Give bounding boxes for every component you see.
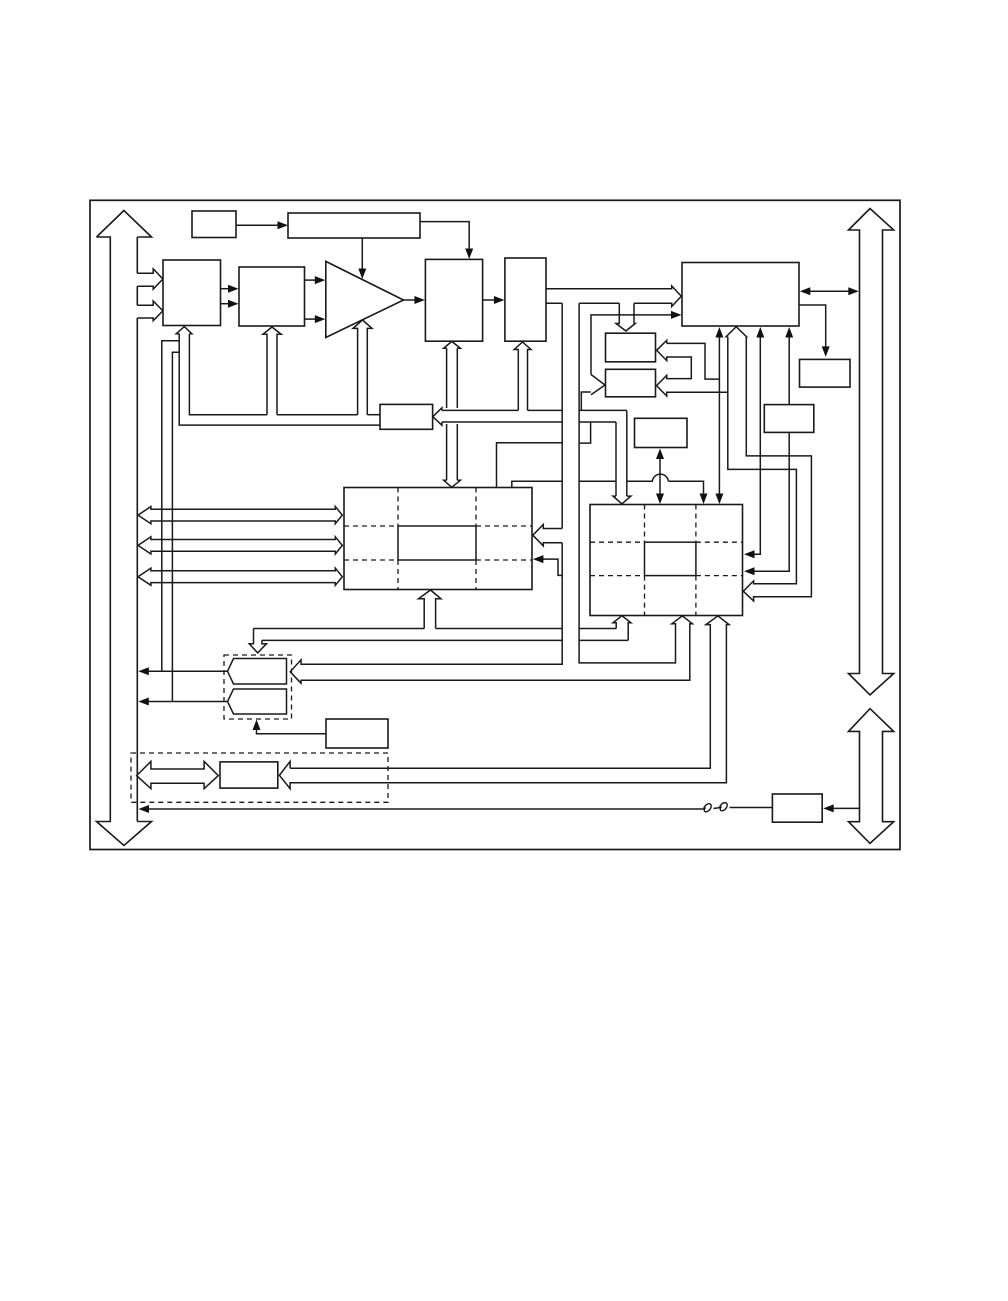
amplifier triangle	[326, 261, 404, 337]
arrow B3 to B4	[483, 299, 494, 301]
lower channel top line mid	[436, 628, 563, 630]
block K2 dashed verticals	[645, 505, 696, 616]
double arrow B7 to right bus	[808, 290, 851, 292]
wire from control block B7 left to B9	[591, 315, 672, 375]
enclosure border	[90, 200, 900, 849]
block B3	[425, 259, 482, 341]
double arrow box B10 to K2	[659, 457, 661, 496]
bus shaft right line from B1 and top rail	[189, 334, 267, 415]
hollow arrow up into block K1 bottom	[419, 590, 442, 629]
latch 1 (flag shape)	[228, 659, 287, 685]
hollow channel C1 with arrow into latch and into block K2 bottom	[290, 303, 692, 683]
arrow B2 to amplifier lower	[305, 318, 316, 320]
box B8	[606, 333, 656, 362]
hollow arrow B4 to control block B7	[546, 286, 681, 307]
top rail right segment 1	[442, 409, 518, 411]
top rail segment C1 to corner	[579, 409, 627, 411]
arrow B1 to B2 lower	[221, 303, 229, 305]
wire box B14 to latch group	[257, 728, 327, 734]
wire C1 to K1 right edge	[543, 559, 563, 575]
hollow branch arrow from C1 into block K1	[533, 525, 562, 546]
arrowhead of rails into register box	[433, 408, 442, 426]
wire rails to K1 top	[497, 443, 563, 488]
lower channel top line right	[579, 628, 616, 630]
wire B7 through box B12 to K2 right edge	[754, 336, 790, 572]
block B4	[505, 258, 546, 341]
register box on internal bus	[380, 404, 433, 429]
lower channel bottom line right	[579, 639, 628, 641]
block K1 inner solid box	[398, 526, 476, 560]
bus tap into block B4 bottom	[514, 342, 531, 410]
double arrow B3 to K1, top head	[444, 341, 461, 348]
block K1 dashed horizontals	[344, 526, 532, 560]
box B12	[764, 405, 814, 433]
arrow B2 to amplifier upper	[305, 279, 316, 281]
block K1 dashed verticals	[398, 488, 476, 590]
hollow arrow up into block K2 bottom left	[613, 616, 631, 641]
right system bus upper (vertical double arrow)	[849, 209, 894, 695]
latch 2 output wire to left bus	[147, 701, 228, 703]
tap wire 2 to left bus	[172, 352, 179, 701]
wire B7 down to K2 right edge	[754, 336, 761, 555]
open arrowhead into block B9 left edge	[591, 375, 605, 395]
bus tap into block B2 bottom	[263, 327, 281, 415]
wire small box to long box	[236, 224, 279, 226]
serial box dashed enclosure	[131, 753, 388, 802]
bus tap arrow into block B1 (upper)	[137, 269, 163, 289]
top rail segment to C1	[528, 409, 563, 411]
double arrow bus to serial box	[137, 761, 219, 788]
latch 2 (flag shape)	[228, 689, 287, 714]
hollow arrow down into latch group	[249, 629, 266, 653]
block B2	[239, 267, 305, 326]
hollow channel B7 to block K2 right edge	[726, 327, 811, 601]
tap wire 1 to left bus	[162, 341, 179, 672]
top small box	[192, 211, 236, 238]
block K2 outer	[590, 505, 743, 616]
box B14	[326, 719, 388, 748]
open arrowhead into block K2 top left	[613, 496, 631, 504]
block K1 outer	[344, 488, 532, 590]
wire long box to block B3 top	[420, 222, 469, 250]
break squiggle	[704, 803, 773, 812]
branch of rails up to block B9 step	[581, 392, 591, 410]
box B11	[800, 359, 851, 387]
top rail segment to register box	[367, 414, 380, 416]
hollow arrows into B8 and B9 right with staircase	[657, 340, 728, 396]
latch group dashed box	[224, 655, 292, 719]
double arrow bus to K1 row 2	[138, 537, 342, 554]
serial box B15	[220, 762, 278, 788]
rail merge into C1	[579, 422, 591, 443]
latch 1 output wire to left bus	[147, 670, 228, 672]
top long box	[288, 213, 420, 238]
lower channel top line left	[254, 628, 425, 630]
bus tap arrow into block B1 (lower)	[137, 301, 163, 321]
block K2 inner solid box	[645, 542, 696, 575]
bottom rail segment C1 to corner	[579, 421, 616, 423]
block K2 dashed horizontals	[590, 542, 743, 575]
rails turn down into block K2 top left, inner line	[615, 422, 617, 496]
left system bus (vertical double arrow)	[97, 211, 152, 846]
double arrow B3 to K1, shafts	[447, 348, 458, 480]
lower channel bottom line left	[262, 639, 562, 641]
arrow head of bus into block B1 bottom	[176, 327, 192, 334]
bus shaft left line from B1 down and bottom rail	[179, 334, 380, 425]
box B13	[772, 794, 822, 822]
box B10	[635, 418, 688, 447]
long wire to box B13 with break	[147, 808, 704, 810]
block B1	[163, 260, 221, 326]
box B9	[606, 369, 656, 397]
hollow channel serial box to K2 bottom right	[279, 616, 729, 789]
wire K1 top to K2 top with jump arc	[512, 474, 704, 494]
wire long box down to amplifier	[361, 238, 363, 270]
wire B7 to K2 top (double headed)	[718, 336, 720, 496]
bottom rail right segment 1	[442, 421, 562, 423]
top rail segment B2 to amplifier tap	[277, 414, 358, 416]
wire B7 to box B11	[799, 305, 826, 347]
arrow amplifier to B3	[404, 299, 415, 301]
double arrow bus to K1 row 3	[138, 568, 342, 585]
hollow arrow down into box B8	[616, 303, 635, 331]
double arrow B3 to K1, bottom head	[444, 480, 461, 487]
control block B7	[682, 263, 799, 327]
bus tap into amplifier bottom	[353, 320, 372, 415]
wire right bus to box B13	[831, 807, 860, 809]
arrow B1 to B2 upper	[221, 288, 229, 290]
right system bus lower (vertical double arrow)	[849, 709, 894, 844]
double arrow bus to K1 row 1	[138, 507, 342, 524]
rails turn down into block K2 top left, outer line	[626, 410, 628, 496]
staircase outer line to B7 wire	[667, 343, 720, 379]
